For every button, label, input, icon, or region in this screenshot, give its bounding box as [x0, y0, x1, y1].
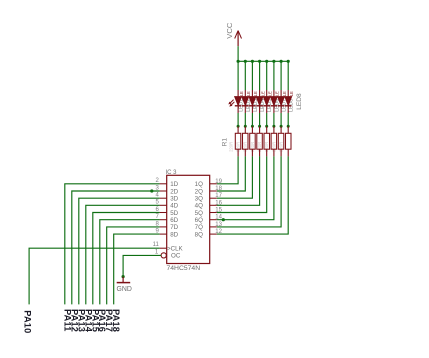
svg-text:1Q: 1Q [195, 181, 203, 188]
svg-text:12: 12 [215, 229, 222, 235]
pin stub 16 (4Q) [210, 204, 217, 206]
junction at resistor 6 top [272, 125, 275, 128]
svg-text:16: 16 [215, 200, 222, 206]
pin stub 6 (5D) [160, 212, 167, 214]
pin stub 11 (CLK) [160, 247, 167, 249]
wire LED1 cathode to R1 resistor 1 [237, 113, 239, 126]
svg-text:LE: LE [239, 91, 244, 96]
svg-text:LE: LE [268, 91, 273, 96]
wire bus to LED1 anode [237, 61, 239, 90]
junction on pin 14 wire [222, 218, 225, 221]
svg-text:LED8: LED8 [296, 93, 303, 110]
wire VCC bus (horizontal) [238, 60, 288, 62]
svg-text:2Q: 2Q [195, 188, 203, 195]
wire bus to LED4 anode [259, 61, 261, 90]
wire resistor 6 to pin 14 (6Q) [217, 156, 274, 219]
LED LED3 [249, 90, 256, 113]
pin stub 13 (7Q) [210, 226, 217, 228]
wire bus to LED2 anode [244, 61, 246, 90]
svg-text:3D: 3D [170, 196, 178, 203]
svg-text:LE: LE [246, 91, 251, 96]
svg-text:LE: LE [260, 91, 265, 96]
pin 1 OC inversion bubble [161, 253, 166, 258]
svg-text:3Q: 3Q [195, 196, 203, 203]
svg-text:8Q: 8Q [195, 231, 203, 238]
pin stub 5 (4D) [160, 204, 167, 206]
svg-text:17: 17 [215, 193, 222, 199]
pin stub 17 (3Q) [210, 197, 217, 199]
resistor R1 element 6 [271, 126, 277, 156]
svg-text:7Q: 7Q [195, 224, 203, 231]
junction on VCC bus col 5 [265, 60, 268, 63]
svg-text:15: 15 [215, 208, 222, 214]
resistor R1 element 4 [257, 126, 263, 156]
resistor R1 element 7 [278, 126, 284, 156]
wire resistor 8 to pin 12 (8Q) [217, 156, 288, 234]
wire OC to GND [123, 255, 161, 276]
svg-text:74HC574N: 74HC574N [167, 265, 201, 272]
svg-text:PA18: PA18 [111, 309, 121, 332]
wire resistor 3 to pin 17 (3Q) [217, 156, 253, 198]
ground symbol GND [117, 277, 131, 283]
junction on VCC bus col 6 [272, 60, 275, 63]
wire bus to LED6 anode [273, 61, 275, 90]
svg-text:IC 3: IC 3 [166, 170, 178, 176]
wire PA10 to CLK pin 11 [29, 248, 160, 304]
svg-text:VCC: VCC [225, 22, 234, 39]
junction at resistor 3 top [251, 125, 254, 128]
svg-text:1D: 1D [170, 181, 178, 188]
resistor R1 element 8 [286, 126, 292, 156]
op IC3 74HC574N body [167, 175, 210, 263]
svg-text:1: 1 [155, 250, 159, 256]
svg-text:6Q: 6Q [195, 217, 203, 224]
wire PA14 to pin 5 (4D) [86, 205, 160, 304]
svg-text:5D: 5D [170, 210, 178, 217]
wire PA15 to pin 6 (5D) [93, 213, 160, 305]
svg-text:14: 14 [215, 215, 222, 221]
junction at resistor 4 top [258, 125, 261, 128]
wire bus to LED8 anode [287, 61, 289, 90]
svg-text:7D: 7D [170, 224, 178, 231]
junction on VCC bus col 4 [258, 60, 261, 63]
wire LED8 cathode to R1 resistor 8 [287, 113, 289, 126]
svg-text:19: 19 [215, 179, 222, 185]
junction on pin 3 wire [150, 189, 153, 192]
svg-text:LE: LE [253, 91, 258, 96]
svg-text:LE: LE [289, 91, 294, 96]
svg-text:LE: LE [282, 91, 287, 96]
wire LED2 cathode to R1 resistor 2 [244, 113, 246, 126]
wire PA18 to pin 9 (8D) [114, 234, 160, 304]
pin stub 9 (8D) [160, 233, 167, 235]
wire bus to LED5 anode [266, 61, 268, 90]
resistor R1 element 5 [264, 126, 270, 156]
svg-text:LE: LE [275, 91, 280, 96]
resistor R1 element 1 [235, 126, 241, 156]
pin stub 7 (6D) [160, 219, 167, 221]
LED LED8 [285, 90, 292, 113]
wire LED6 cathode to R1 resistor 6 [273, 113, 275, 126]
pin stub 4 (3D) [160, 197, 167, 199]
junction at resistor 5 top [265, 125, 268, 128]
wire LED3 cathode to R1 resistor 3 [251, 113, 253, 126]
pin stub 19 (1Q) [210, 183, 217, 185]
wire VCC to bus [237, 46, 239, 61]
junction at resistor 1 top [237, 125, 240, 128]
wire bus to LED7 anode [280, 61, 282, 90]
svg-text:11: 11 [153, 242, 160, 248]
svg-text:8D: 8D [170, 231, 178, 238]
wire PA16 to pin 7 (6D) [100, 220, 160, 305]
junction at resistor 2 top [244, 125, 247, 128]
svg-text:OC: OC [171, 253, 181, 260]
svg-text:>CLK: >CLK [167, 246, 184, 253]
LED LED4 [256, 90, 263, 113]
wire PA13 to pin 4 (3D) [79, 198, 160, 304]
resistor R1 element 3 [250, 126, 256, 156]
junction on VCC bus col 3 [251, 60, 254, 63]
power symbol VCC (arrow) [235, 31, 242, 47]
pin stub 2 (1D) [160, 183, 167, 185]
svg-text:4Q: 4Q [195, 203, 203, 210]
svg-text:6D: 6D [170, 217, 178, 224]
LED LED1 [235, 90, 242, 113]
wire LED4 cathode to R1 resistor 4 [259, 113, 261, 126]
LED1 emission arrows [228, 100, 234, 107]
wire PA11 to pin 2 (1D) [65, 184, 160, 305]
wire LED5 cathode to R1 resistor 5 [266, 113, 268, 126]
pin stub 12 (8Q) [210, 233, 217, 235]
junction at GND [122, 275, 125, 278]
wire resistor 2 to pin 18 (2Q) [217, 156, 246, 191]
svg-text:PA10: PA10 [23, 310, 33, 333]
junction on VCC bus col 7 [280, 60, 283, 63]
junction at resistor 7 top [280, 125, 283, 128]
junction on VCC bus col 8 [287, 60, 290, 63]
LED LED6 [271, 90, 278, 113]
resistor R1 element 2 [243, 126, 249, 156]
wire resistor 4 to pin 16 (4Q) [217, 156, 260, 205]
wire PA12 to pin 3 (2D) [72, 191, 160, 304]
pin stub 3 (2D) [160, 190, 167, 192]
pin stub 18 (2Q) [210, 190, 217, 192]
LED LED2 [242, 90, 249, 113]
LED LED7 [278, 90, 285, 113]
svg-text:4D: 4D [170, 203, 178, 210]
pin stub 15 (5Q) [210, 212, 217, 214]
junction at resistor 8 top [287, 125, 290, 128]
LED LED5 [263, 90, 270, 113]
wire resistor 1 to pin 19 (1Q) [217, 156, 238, 183]
svg-text:13: 13 [215, 222, 222, 228]
pin stub 8 (7D) [160, 226, 167, 228]
wire PA17 to pin 8 (7D) [107, 227, 160, 305]
svg-text:5Q: 5Q [195, 210, 203, 217]
svg-text:GND: GND [117, 286, 132, 293]
pin stub 14 (6Q) [210, 219, 217, 221]
junction on VCC bus col 2 [244, 60, 247, 63]
wire bus to LED3 anode [251, 61, 253, 90]
wire resistor 5 to pin 15 (5Q) [217, 156, 267, 212]
junction on VCC bus col 1 [237, 60, 240, 63]
svg-text:220R: 220R [228, 142, 233, 152]
wire resistor 7 to pin 13 (7Q) [217, 156, 281, 227]
svg-text:2D: 2D [170, 188, 178, 195]
wire LED7 cathode to R1 resistor 7 [280, 113, 282, 126]
svg-text:18: 18 [215, 186, 222, 192]
